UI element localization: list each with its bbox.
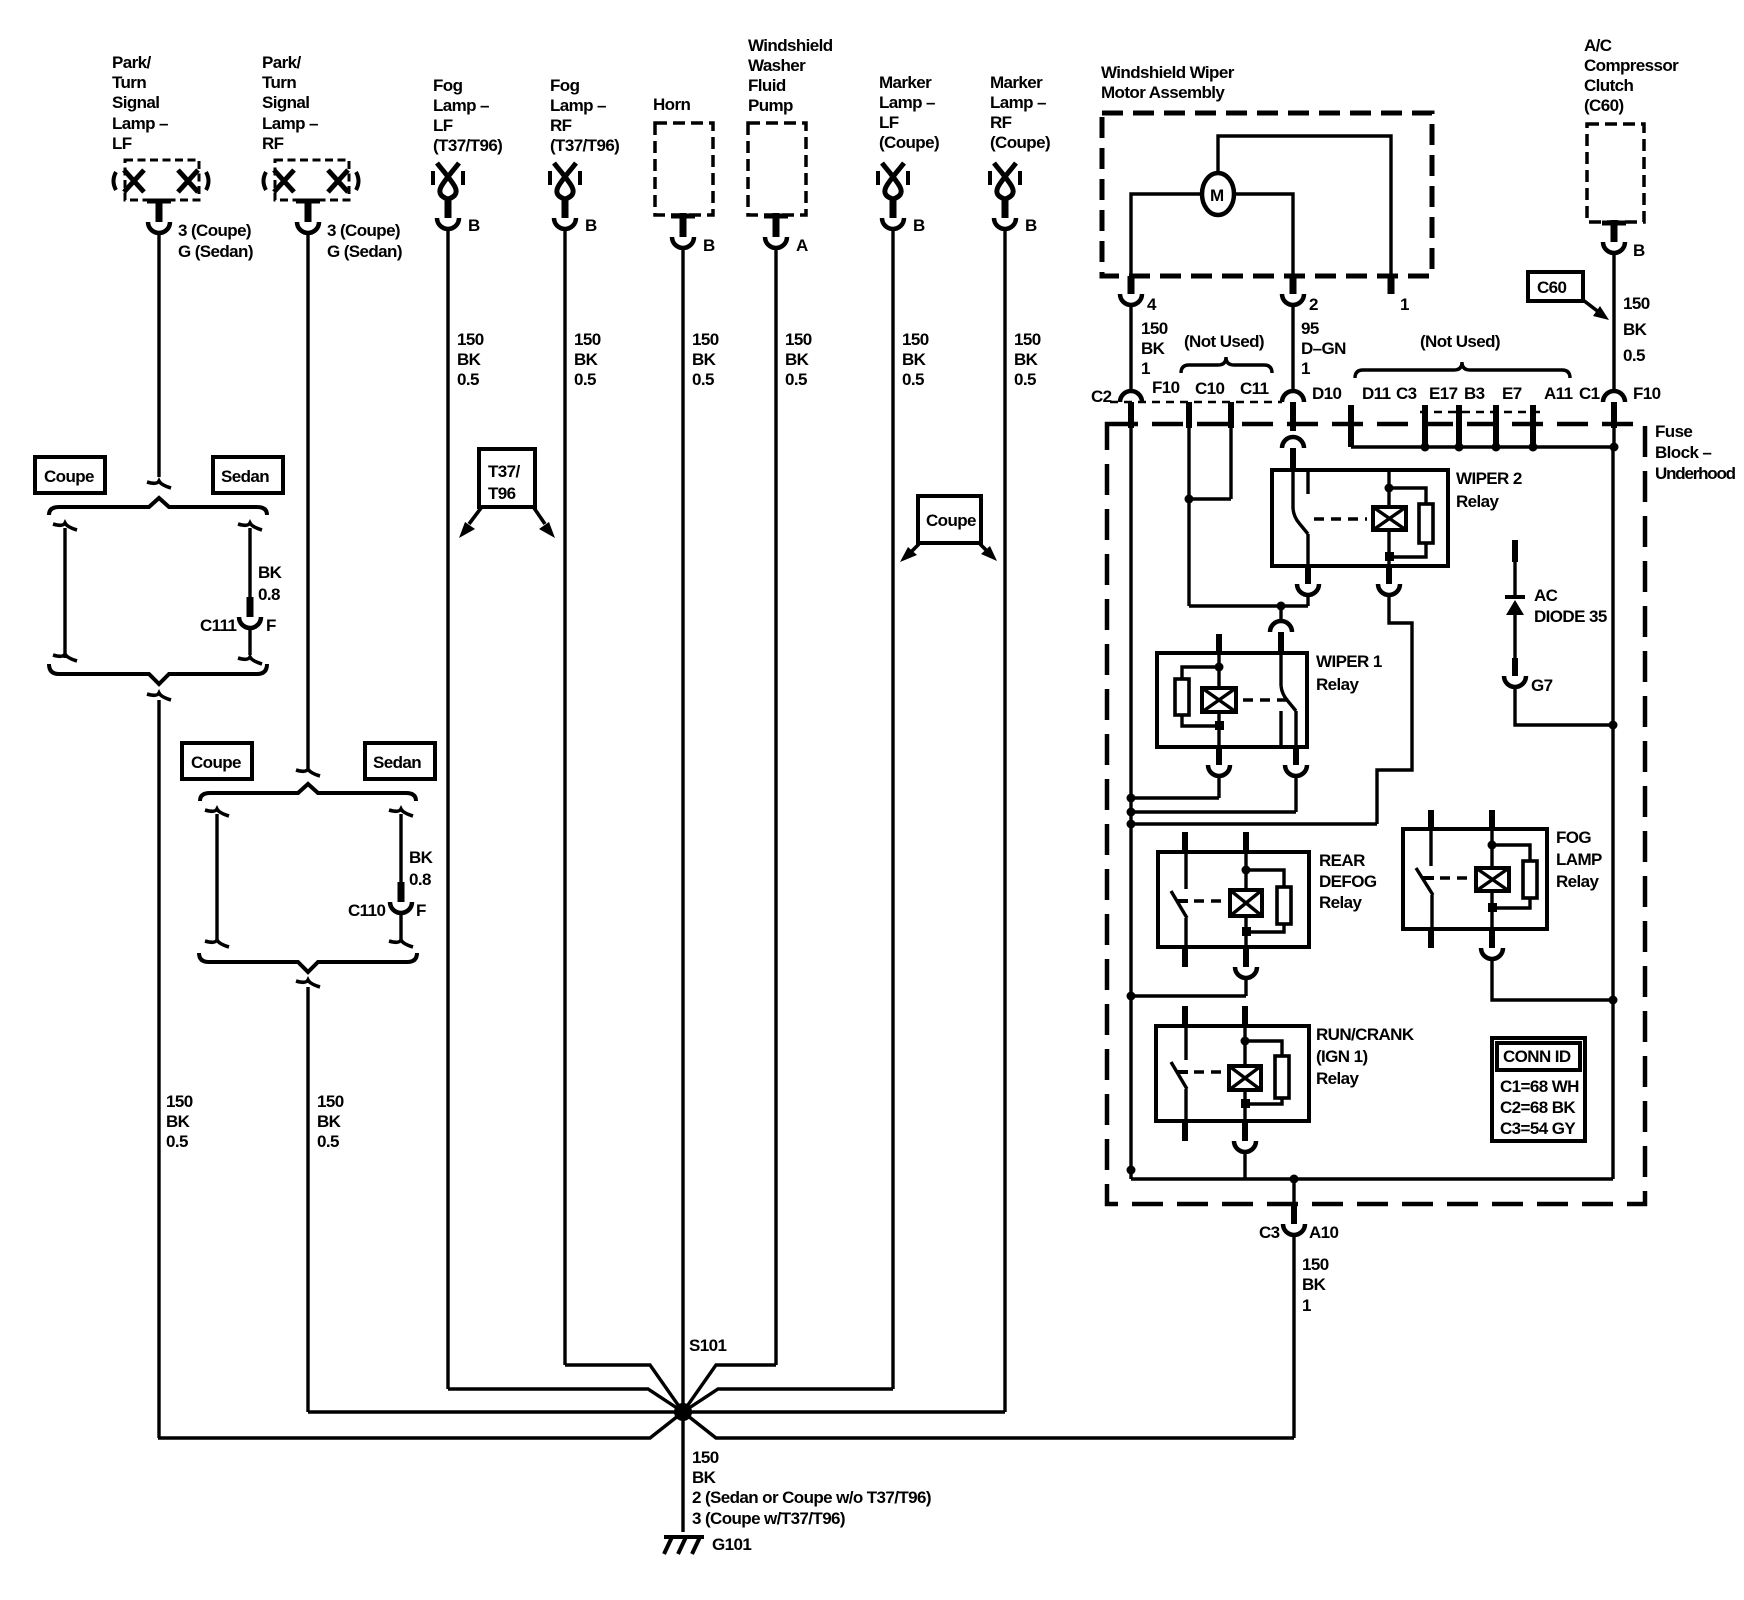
wire Park/Turn RF down — [306, 234, 309, 768]
svg-text:T37/: T37/ — [488, 462, 520, 481]
wire FOG LAMP coil to right bus — [1492, 960, 1613, 1000]
svg-text:Lamp –: Lamp – — [112, 114, 168, 133]
WIPER 1 switch pin stub (bottom) — [1293, 747, 1299, 765]
wire Marker RF down — [1003, 230, 1006, 1412]
wire label 150 BK 0.5 (A/C) — [1623, 294, 1650, 365]
WIPER 2 switch output line — [1306, 534, 1309, 566]
svg-text:E7: E7 — [1502, 384, 1522, 403]
connector G7 socket — [1504, 676, 1526, 687]
pin D10 stub — [1290, 402, 1296, 431]
wire Fog Lamp LF down — [446, 230, 449, 1389]
wire to AC diode — [1513, 562, 1516, 597]
svg-text:RF: RF — [262, 134, 284, 153]
svg-text:Coupe: Coupe — [191, 753, 241, 772]
svg-text:D–GN: D–GN — [1301, 339, 1346, 358]
REAR DEFOG coil socket — [1235, 967, 1257, 978]
Fog Lamp RF terminal stub — [562, 198, 569, 218]
svg-text:B: B — [1025, 216, 1037, 235]
Park/Turn RF terminal stub — [305, 199, 312, 222]
wire label BK 0.8 (Sedan branch 2) — [409, 848, 434, 889]
svg-text:BK: BK — [409, 848, 434, 867]
Park/Turn RF connector 3(Coupe)/G(Sedan) — [297, 222, 319, 233]
svg-text:Fog: Fog — [433, 76, 463, 95]
brace 2 (merge, opens up) — [49, 664, 267, 684]
svg-text:CONN ID: CONN ID — [1503, 1047, 1571, 1066]
RUN/CRANK switch contact bar — [1176, 1070, 1188, 1074]
pin E7 stub — [1530, 405, 1536, 447]
svg-text:B3: B3 — [1464, 384, 1485, 403]
Marker RF terminal stub — [1002, 198, 1009, 218]
wire Park/Turn LF bottom run into S101 — [158, 1412, 683, 1438]
svg-text:G101: G101 — [712, 1535, 751, 1554]
REAR DEFOG switch bottom pin stub — [1182, 947, 1188, 967]
wire REAR DEFOG coil to bus — [1244, 979, 1247, 996]
RUN/CRANK coil feed line — [1243, 1026, 1246, 1066]
wire label 150 BK 0.5 (Park/Turn LF lower) — [166, 1092, 193, 1151]
svg-text:E17: E17 — [1429, 384, 1458, 403]
svg-text:F: F — [266, 616, 276, 635]
svg-text:(T37/T96): (T37/T96) — [550, 136, 619, 155]
REAR DEFOG coil (X box) — [1230, 890, 1262, 916]
wire label 150 BK 0.5 (Marker LF) — [902, 330, 929, 389]
svg-text:C110: C110 — [348, 901, 385, 920]
FOG LAMP switch common line — [1429, 829, 1432, 866]
svg-text:150: 150 — [317, 1092, 344, 1111]
svg-text:BK: BK — [317, 1112, 342, 1131]
svg-text:Windshield Wiper: Windshield Wiper — [1101, 63, 1235, 82]
WIPER 2 coil output line — [1387, 530, 1390, 566]
wire Washer pump down — [774, 249, 777, 1365]
RUN/CRANK switch top pin stub — [1182, 1006, 1188, 1026]
svg-text:BK: BK — [166, 1112, 191, 1131]
svg-text:0.5: 0.5 — [166, 1132, 188, 1151]
wire C10 down — [1229, 428, 1232, 499]
svg-text:Marker: Marker — [879, 73, 932, 92]
Fuse Block label — [1655, 422, 1736, 483]
svg-text:Motor Assembly: Motor Assembly — [1101, 83, 1225, 102]
wire WIPER1 coil to bus — [1217, 777, 1220, 798]
svg-text:LF: LF — [879, 113, 899, 132]
wire label 150 BK 0.5 (Horn) — [692, 330, 719, 389]
junction dot bus2 — [1127, 808, 1136, 817]
brace 4 (merge 2, opens up) — [199, 953, 417, 972]
svg-text:A10: A10 — [1309, 1223, 1339, 1242]
svg-text:Block –: Block – — [1655, 443, 1711, 462]
pin 2 stub — [1290, 276, 1297, 294]
FOG LAMP coil (X box) — [1476, 868, 1509, 891]
svg-text:1: 1 — [1302, 1296, 1311, 1315]
svg-text:Relay: Relay — [1319, 893, 1363, 912]
wire end hook above brace 1 — [147, 481, 171, 488]
junction dot output — [1290, 1175, 1299, 1184]
svg-text:C3: C3 — [1259, 1223, 1280, 1242]
svg-text:Turn: Turn — [112, 73, 146, 92]
WIPER 1 coil feed line — [1217, 653, 1220, 688]
wire Park/Turn LF down — [157, 234, 160, 477]
pin F10 right stub — [1611, 402, 1617, 428]
ground bus line 4 — [1131, 994, 1246, 997]
pin B3 stub — [1493, 405, 1499, 447]
REAR DEFOG coil pin stub (bottom) — [1243, 947, 1249, 967]
svg-text:T96: T96 — [488, 484, 516, 503]
svg-text:150: 150 — [1623, 294, 1650, 313]
svg-text:C2=68 BK: C2=68 BK — [1500, 1098, 1576, 1117]
wire Park/Turn RF lower run — [306, 987, 309, 1412]
junction dots on not-used bus — [1421, 443, 1619, 452]
svg-text:LAMP: LAMP — [1556, 850, 1602, 869]
Windshield Washer Fluid Pump (dashed box) — [748, 123, 806, 215]
WIPER 2 coil suppression resistor — [1385, 484, 1434, 562]
not-used pins bus — [1351, 445, 1614, 449]
ground bus line 1 — [1131, 796, 1219, 799]
REAR DEFOG switch output line — [1184, 918, 1187, 947]
AC DIODE label — [1534, 586, 1607, 626]
svg-text:WIPER 2: WIPER 2 — [1456, 469, 1522, 488]
Coupe box (second section) — [182, 743, 252, 779]
wire motor to pin 1 — [1218, 136, 1391, 276]
Coupe box (upper left) — [35, 457, 105, 493]
Park/Turn LF connector 3(Coupe)/G(Sedan) — [148, 222, 170, 233]
wire below C110 — [389, 914, 413, 947]
brace over C10 C11 — [1181, 357, 1272, 373]
wire label 150 BK 0.5 (Washer) — [785, 330, 812, 389]
C60 callout box — [1528, 272, 1583, 301]
svg-text:(C60): (C60) — [1584, 96, 1624, 115]
svg-text:C11: C11 — [1240, 379, 1269, 398]
RUN/CRANK switch common line — [1184, 1026, 1187, 1060]
Fog Lamp RF connector pin B — [554, 218, 576, 229]
svg-text:Windshield: Windshield — [748, 36, 833, 55]
svg-text:Sedan: Sedan — [373, 753, 421, 772]
wire pin 4 to fuse block C2 — [1129, 306, 1132, 390]
bus F10 to WIPER1 feed — [1189, 604, 1308, 607]
A/C Compressor Clutch label — [1584, 36, 1679, 115]
svg-text:BK: BK — [1141, 339, 1166, 358]
svg-text:Washer: Washer — [748, 56, 806, 75]
wire motor to pin 4 — [1131, 194, 1202, 276]
svg-text:C3=54 GY: C3=54 GY — [1500, 1119, 1576, 1138]
T37/T96 arrow left — [459, 508, 481, 538]
FOG LAMP switch blade — [1416, 868, 1433, 895]
REAR DEFOG switch contact bar — [1176, 899, 1188, 903]
pin 1 stub — [1388, 276, 1395, 294]
svg-text:Lamp –: Lamp – — [990, 93, 1046, 112]
Fog Lamp LF label — [433, 76, 502, 155]
svg-text:Lamp –: Lamp – — [879, 93, 935, 112]
svg-text:Signal: Signal — [112, 93, 159, 112]
pin C10 stub — [1228, 402, 1234, 428]
WIPER 1 switch common line — [1279, 653, 1282, 686]
FOG LAMP coil top pin stub — [1489, 810, 1495, 829]
svg-text:1: 1 — [1301, 359, 1310, 378]
wire motor to pin 2 — [1234, 194, 1293, 276]
Washer pump terminal stub — [773, 213, 780, 237]
svg-text:150: 150 — [1302, 1255, 1329, 1274]
svg-text:BK: BK — [457, 350, 482, 369]
svg-text:BK: BK — [1014, 350, 1039, 369]
AC DIODE 35 — [1505, 597, 1525, 658]
fuse block bottom bus — [1131, 1177, 1613, 1180]
svg-text:B: B — [1633, 241, 1645, 260]
FOG LAMP coil output line — [1490, 891, 1493, 929]
svg-text:LF: LF — [433, 116, 453, 135]
Park/Turn Signal Lamp RF (dual bulb, dashed housing) — [264, 160, 359, 200]
junction dot fog/right bus — [1609, 996, 1618, 1005]
svg-text:0.5: 0.5 — [574, 370, 596, 389]
wire label 95 D-GN 1 (pin 2) — [1301, 319, 1346, 378]
FOG LAMP switch top pin stub — [1428, 810, 1434, 829]
svg-text:BK: BK — [574, 350, 599, 369]
WIPER 1 coil top pin stub — [1216, 634, 1222, 653]
Coupe arrow left — [900, 544, 919, 562]
svg-text:BK: BK — [258, 563, 283, 582]
splice S101 — [674, 1403, 692, 1421]
FOG LAMP switch contact bar — [1422, 876, 1434, 880]
WIPER 1 coil socket — [1208, 765, 1230, 776]
svg-text:C111: C111 — [200, 616, 237, 635]
svg-text:RF: RF — [550, 116, 572, 135]
wire end hook below brace 4 — [296, 980, 320, 987]
Park/Turn Signal Lamp RF label — [262, 53, 318, 153]
svg-text:Lamp –: Lamp – — [433, 96, 489, 115]
Marker RF connector pin B — [994, 218, 1016, 229]
svg-text:Coupe: Coupe — [926, 511, 976, 530]
Fog Lamp RF bulb — [550, 163, 580, 199]
wire Sedan branch 1 (right) — [238, 523, 262, 597]
G7 pin stub — [1512, 658, 1518, 676]
ground G101 — [664, 1537, 704, 1554]
C60 arrow — [1583, 300, 1609, 320]
REAR DEFOG relay label — [1319, 851, 1377, 912]
Sedan box (upper) — [213, 457, 283, 493]
Fuse Block Underhood (dashed border) — [1107, 424, 1645, 1204]
svg-text:A/C: A/C — [1584, 36, 1612, 55]
wire F10 down to bus — [1612, 428, 1615, 447]
svg-text:150: 150 — [457, 330, 484, 349]
wire WIPER2 coil to left bus (staircase) — [1377, 596, 1412, 824]
svg-text:DEFOG: DEFOG — [1319, 872, 1377, 891]
svg-text:BK: BK — [1623, 320, 1648, 339]
svg-text:0.5: 0.5 — [457, 370, 479, 389]
C111 terminal stub — [247, 597, 254, 617]
RUN/CRANK relay box — [1156, 1026, 1309, 1121]
svg-text:2 (Sedan or Coupe w/o T37/T96): 2 (Sedan or Coupe w/o T37/T96) — [692, 1488, 931, 1507]
Fog Lamp LF terminal stub — [445, 198, 452, 218]
svg-text:150: 150 — [902, 330, 929, 349]
wire label 150 BK 0.5 (Fog RF) — [574, 330, 601, 389]
svg-text:F10: F10 — [1152, 378, 1180, 397]
wire Marker LF bend into S101 — [683, 1389, 893, 1412]
Marker LF connector pin B — [882, 218, 904, 229]
svg-text:RF: RF — [990, 113, 1012, 132]
svg-text:WIPER 1: WIPER 1 — [1316, 652, 1382, 671]
WIPER 2 switch output pin stub — [1305, 566, 1311, 584]
wire pin 2 to fuse block D10 — [1291, 306, 1294, 390]
AC DIODE 35 feed stub — [1512, 540, 1518, 562]
WIPER 1 feed pin stub — [1278, 632, 1284, 653]
wire WIPER1 switch to bus — [1294, 777, 1297, 812]
svg-text:C10: C10 — [1195, 379, 1225, 398]
svg-text:(Not Used): (Not Used) — [1420, 332, 1500, 351]
REAR DEFOG coil link (dashed) — [1194, 899, 1228, 903]
svg-text:BK: BK — [1302, 1275, 1327, 1294]
Horn connector pin B — [672, 237, 694, 248]
junction dot F10 jumper — [1185, 495, 1194, 504]
wire RUN/CRANK coil to bottom bus — [1243, 1153, 1246, 1179]
connector D10 arc — [1282, 391, 1304, 402]
svg-text:0.5: 0.5 — [1623, 346, 1645, 365]
wire G7 to right bus — [1515, 688, 1613, 725]
svg-text:RUN/CRANK: RUN/CRANK — [1316, 1025, 1415, 1044]
motor connector pin 4 — [1120, 294, 1142, 305]
svg-text:150: 150 — [574, 330, 601, 349]
FOG LAMP coil feed line — [1490, 829, 1493, 868]
right bus vertical — [1611, 447, 1614, 1179]
svg-text:G (Sedan): G (Sedan) — [327, 242, 402, 261]
wire C3/A10 down to splice bus — [1292, 1236, 1295, 1438]
wire F10-C10 jumper — [1189, 497, 1231, 500]
svg-text:3 (Coupe): 3 (Coupe) — [178, 221, 251, 240]
FOG LAMP coil link (dashed) — [1440, 876, 1473, 880]
T37/T96 arrow right — [534, 508, 555, 538]
wire Washer bend into S101 — [683, 1365, 776, 1412]
connector C1/F10 arc — [1603, 391, 1625, 402]
wire Marker LF down — [891, 230, 894, 1389]
svg-text:Clutch: Clutch — [1584, 76, 1634, 95]
Marker Lamp LF label — [879, 73, 939, 152]
Sedan box (second section) — [365, 743, 435, 779]
wire F10/C10 loop: F10 down — [1187, 428, 1190, 606]
FOG LAMP coil pin stub (bottom) — [1489, 929, 1495, 948]
svg-text:150: 150 — [785, 330, 812, 349]
wire label BK 0.8 (Sedan branch 1) — [258, 563, 283, 604]
svg-text:G (Sedan): G (Sedan) — [178, 242, 253, 261]
C3/A10 pin stub — [1291, 1202, 1297, 1224]
REAR DEFOG switch blade — [1171, 891, 1187, 918]
svg-text:BK: BK — [692, 350, 717, 369]
svg-text:BK: BK — [692, 1468, 717, 1487]
WIPER 2 switch common line — [1291, 470, 1294, 509]
REAR DEFOG switch top pin stub — [1182, 832, 1188, 852]
RUN/CRANK coil pin stub (bottom) — [1242, 1121, 1248, 1141]
svg-text:(T37/T96): (T37/T96) — [433, 136, 502, 155]
ground bus line 3 (to WIPER2 coil) — [1131, 822, 1377, 825]
svg-text:Pump: Pump — [748, 96, 793, 115]
svg-text:Relay: Relay — [1556, 872, 1600, 891]
pin D10 inner stub — [1290, 448, 1296, 470]
wire down to WIPER1 socket — [1279, 606, 1282, 620]
wire Park/Turn LF lower run — [157, 700, 160, 1438]
Marker Lamp RF label — [990, 73, 1050, 152]
svg-text:LF: LF — [112, 134, 132, 153]
Park/Turn LF terminal stub — [156, 199, 163, 222]
svg-text:B: B — [703, 236, 715, 255]
wire A/C clutch down to F10 — [1612, 254, 1615, 390]
svg-text:150: 150 — [1141, 319, 1168, 338]
wire fuse block output down — [1292, 1179, 1295, 1202]
A/C clutch connector pin B — [1603, 242, 1625, 253]
WIPER 1 switch output line — [1294, 711, 1297, 747]
connector C2 arc — [1120, 391, 1142, 402]
Coupe arrow right — [980, 544, 997, 561]
svg-text:Compressor: Compressor — [1584, 56, 1679, 75]
wire label 150 BK 1 (C3/A10) — [1302, 1255, 1329, 1315]
wire label 150 BK 0.5 (Park/Turn RF lower) — [317, 1092, 344, 1151]
WIPER 2 relay box — [1272, 470, 1448, 566]
WIPER 2 coil socket — [1378, 584, 1400, 595]
junction dot WIPER1 feed — [1277, 602, 1286, 611]
svg-text:150: 150 — [692, 330, 719, 349]
pin 4 stub — [1128, 276, 1135, 294]
svg-text:REAR: REAR — [1319, 851, 1365, 870]
pin F10 stub — [1186, 402, 1192, 428]
svg-text:B: B — [585, 216, 597, 235]
RUN/CRANK relay label — [1316, 1025, 1415, 1088]
wire label 150 BK 0.5 (Fog LF) — [457, 330, 484, 389]
svg-text:1: 1 — [1141, 359, 1150, 378]
svg-text:D10: D10 — [1312, 384, 1342, 403]
Washer pump connector pin A — [765, 237, 787, 248]
RUN/CRANK coil output line — [1243, 1090, 1246, 1121]
svg-text:Sedan: Sedan — [221, 467, 269, 486]
wire label 150 BK 0.5 (Marker RF) — [1014, 330, 1041, 389]
pin C2 stub — [1128, 402, 1134, 428]
A/C clutch terminal stub — [1611, 220, 1618, 242]
Fog Lamp LF bulb — [433, 163, 463, 199]
Fog Lamp LF connector pin B — [437, 218, 459, 229]
svg-text:0.8: 0.8 — [409, 870, 431, 889]
svg-text:3 (Coupe w/T37/T96): 3 (Coupe w/T37/T96) — [692, 1509, 845, 1528]
wire end hook above brace 3 — [296, 769, 320, 776]
svg-text:F10: F10 — [1633, 384, 1661, 403]
connector C110 pin F — [348, 901, 426, 920]
svg-text:Horn: Horn — [653, 95, 690, 114]
svg-text:95: 95 — [1301, 319, 1319, 338]
Windshield Washer Fluid Pump label — [748, 36, 833, 115]
svg-text:0.5: 0.5 — [692, 370, 714, 389]
junction dot bus1 — [1127, 794, 1136, 803]
svg-text:S101: S101 — [689, 1336, 726, 1355]
svg-text:Marker: Marker — [990, 73, 1043, 92]
svg-text:0.5: 0.5 — [785, 370, 807, 389]
Windshield Wiper Motor Assembly (dashed box) — [1102, 113, 1432, 276]
FOG LAMP relay label — [1556, 828, 1602, 891]
C110 terminal stub — [398, 882, 405, 902]
wire S101 to C3/A10 bottom run — [683, 1412, 1294, 1438]
WIPER 1 relay label — [1316, 652, 1382, 694]
WIPER 1 switch socket — [1285, 765, 1307, 776]
Park/Turn Signal Lamp LF (dual bulb, dashed housing) — [114, 160, 209, 200]
svg-text:FOG: FOG — [1556, 828, 1591, 847]
wire below C111 — [238, 629, 262, 664]
REAR DEFOG switch common line — [1184, 852, 1187, 889]
brace 3 (Coupe/Sedan split 2, opens down) — [200, 784, 416, 801]
connector row fine dashed line (right) — [1420, 411, 1545, 414]
svg-text:0.8: 0.8 — [258, 585, 280, 604]
RUN/CRANK coil suppression resistor — [1241, 1037, 1290, 1109]
svg-text:Lamp –: Lamp – — [550, 96, 606, 115]
svg-text:2: 2 — [1309, 295, 1318, 314]
svg-text:DIODE 35: DIODE 35 — [1534, 607, 1607, 626]
REAR DEFOG coil output line — [1244, 916, 1247, 947]
Park/Turn Signal Lamp LF label — [112, 53, 168, 153]
svg-text:BK: BK — [902, 350, 927, 369]
connector row fine dashed line (left) — [1110, 401, 1282, 404]
connector C111 pin F — [200, 616, 276, 635]
wire Fog Lamp RF down — [563, 230, 566, 1365]
svg-text:4: 4 — [1147, 295, 1157, 314]
FOG LAMP coil suppression resistor — [1488, 841, 1538, 913]
